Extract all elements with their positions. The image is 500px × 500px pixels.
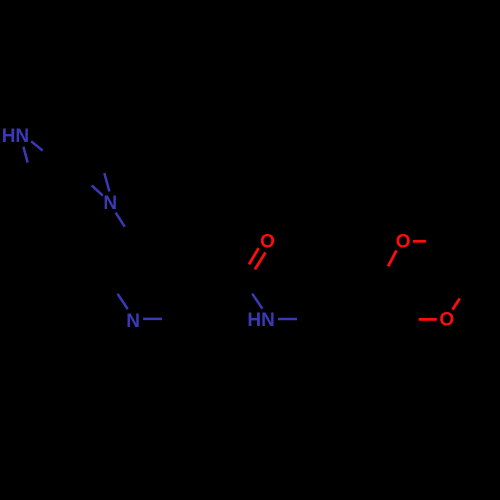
svg-text:N: N	[126, 311, 140, 332]
bond C=O double line left half	[249, 248, 259, 264]
bond N6-C5(pyridine) half (amine N to ring)	[116, 213, 125, 227]
bond O2-CH2 half (diagonal up-right from O2)	[453, 299, 460, 310]
svg-text:O: O	[439, 310, 454, 331]
bond O1-C4a half (diagonal down-left from O1)	[388, 250, 396, 266]
svg-text:HN: HN	[2, 126, 29, 147]
svg-text:HN: HN	[247, 310, 274, 331]
bond N1-C2 half (horizontal from pyridine N)	[143, 318, 162, 321]
bond C5-N6 half (vertical stub above amine N)	[104, 173, 109, 191]
bond O2-C8a half (horizontal left from O2)	[419, 318, 437, 321]
bond O1-CH2 half (horizontal right from O1)	[413, 240, 426, 243]
bond N1-C2 half (HN down)	[23, 147, 27, 163]
bond N-C1' half (horizontal from amide N to phenyl)	[278, 318, 297, 321]
bond C=O double line right half	[255, 253, 266, 270]
bond N1-C7 half (HN to CH2 right-down)	[31, 141, 42, 150]
svg-text:O: O	[260, 232, 275, 253]
bond C6=N1 half (diagonal into pyridine N)	[118, 294, 128, 309]
bond C7-N6 half (diagonal stub upper-left of amine N)	[92, 185, 103, 195]
svg-text:O: O	[396, 232, 411, 253]
svg-text:N: N	[103, 193, 117, 214]
amide N-C(=O) half (diagonal above HN)	[252, 294, 262, 309]
